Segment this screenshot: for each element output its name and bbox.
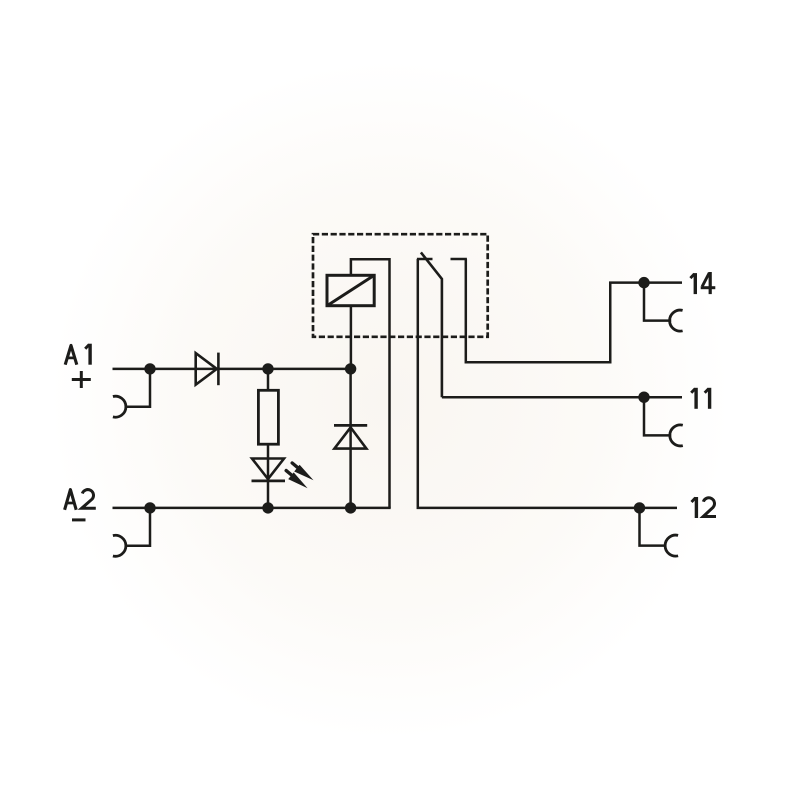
node junction 11 bbox=[638, 392, 649, 403]
node junction LED on A2 bbox=[262, 502, 273, 513]
LED arrow lower bbox=[286, 471, 307, 489]
LED D3 bbox=[252, 459, 286, 481]
diode D2 freewheel bbox=[334, 425, 367, 448]
terminal clamp A2 bbox=[113, 535, 126, 556]
contact NC seat bbox=[417, 258, 433, 261]
wire blade to 11 horizontal bbox=[442, 396, 682, 399]
wire resistor branch top bbox=[267, 369, 270, 390]
wire A1 horizontal bbox=[113, 368, 351, 371]
contact NO hook horizontal bbox=[451, 258, 467, 261]
wire freewheel diode branch bbox=[349, 369, 352, 508]
wire A2 clamp branch bbox=[125, 508, 150, 546]
node junction freewheel on A2 bbox=[345, 502, 356, 513]
wire coil bottom to A1 junction bbox=[350, 306, 353, 369]
relay coil K1 bbox=[327, 275, 374, 305]
node junction coil/diode on A1 bbox=[345, 363, 356, 374]
diode D1 series on A1 line bbox=[196, 353, 219, 386]
wire NO contact to terminal 14 bbox=[466, 259, 682, 362]
node junction on A1 at clamp branch bbox=[144, 363, 155, 374]
relay outline dashed box bbox=[313, 234, 488, 337]
node junction 14 bbox=[638, 277, 649, 288]
terminal label 11 bbox=[691, 388, 709, 409]
LED arrow upper bbox=[292, 463, 313, 480]
plus sign for A1 polarity bbox=[72, 371, 91, 388]
terminal clamp 12 bbox=[665, 535, 678, 556]
terminal clamp 14 bbox=[670, 310, 683, 331]
terminal label 14 bbox=[690, 272, 715, 294]
terminal clamp A1 bbox=[113, 396, 126, 417]
contact fixed NC vertical and wire to 12 bbox=[418, 259, 677, 508]
wire 12 clamp branch bbox=[640, 508, 667, 546]
wire 14 clamp branch bbox=[644, 283, 671, 321]
wire A2 horizontal bbox=[113, 507, 391, 510]
relay coil diagonal bbox=[327, 275, 374, 305]
resistor R1 bbox=[258, 390, 278, 444]
node junction 12 bbox=[634, 502, 645, 513]
contact moving blade bbox=[421, 252, 442, 397]
wire coil top and return to A2 bbox=[351, 259, 390, 508]
minus sign for A2 polarity bbox=[72, 518, 86, 521]
node junction on A2 at clamp branch bbox=[144, 502, 155, 513]
terminal label 12 bbox=[692, 497, 717, 518]
wire A1 clamp branch bbox=[125, 369, 150, 407]
terminal clamp 11 bbox=[670, 425, 683, 446]
wire 11 clamp branch bbox=[644, 397, 671, 435]
wire resistor through LED to A2 bbox=[267, 444, 270, 508]
terminal label A1 bbox=[65, 344, 90, 365]
node junction on A1 at resistor branch bbox=[262, 363, 273, 374]
terminal label A2 bbox=[65, 490, 96, 510]
